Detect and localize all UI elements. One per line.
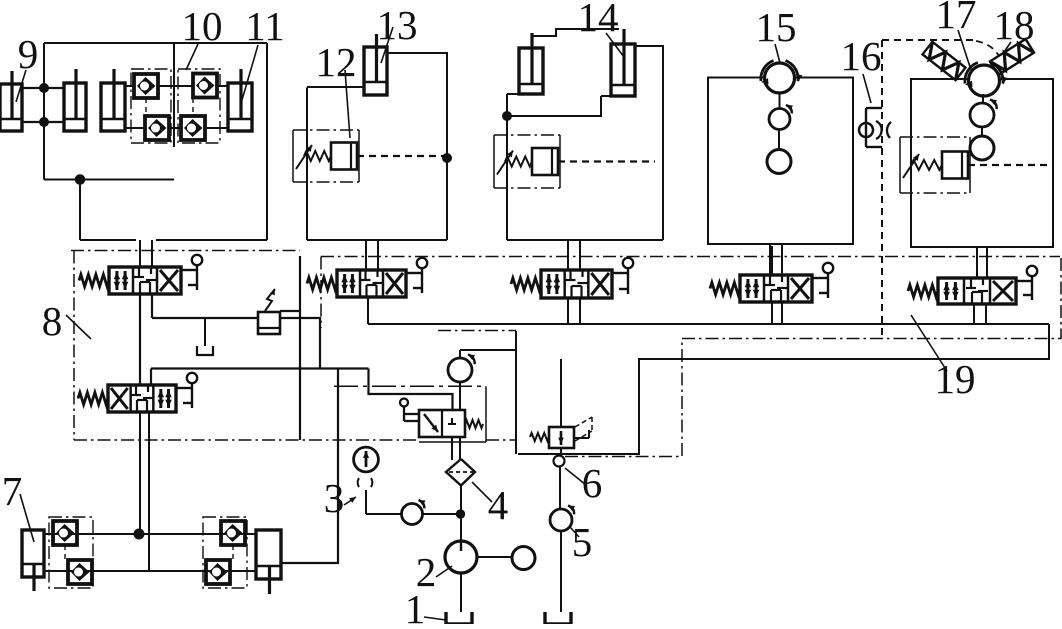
svg-text:14: 14 [578, 0, 619, 40]
svg-text:3: 3 [324, 475, 345, 521]
svg-text:10: 10 [182, 3, 223, 49]
svg-text:19: 19 [935, 356, 976, 402]
svg-text:8: 8 [42, 298, 63, 344]
svg-text:5: 5 [572, 519, 593, 565]
svg-text:4: 4 [488, 482, 509, 528]
svg-text:7: 7 [2, 468, 23, 514]
svg-text:2: 2 [416, 549, 437, 595]
svg-text:18: 18 [994, 2, 1035, 48]
svg-text:15: 15 [756, 4, 797, 50]
svg-text:11: 11 [245, 3, 284, 49]
svg-text:12: 12 [316, 39, 357, 85]
svg-text:13: 13 [377, 2, 418, 48]
svg-text:17: 17 [936, 0, 977, 37]
svg-text:9: 9 [18, 31, 39, 77]
svg-text:6: 6 [582, 460, 603, 506]
svg-text:16: 16 [841, 33, 882, 79]
